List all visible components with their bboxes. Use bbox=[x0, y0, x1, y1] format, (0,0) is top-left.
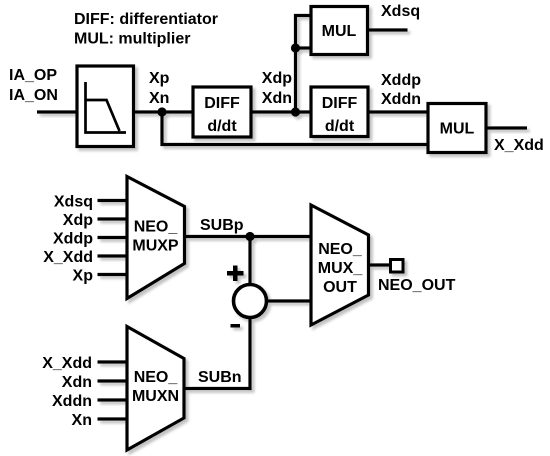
svg-text:MUL: multiplier: MUL: multiplier bbox=[74, 31, 190, 48]
filter response symbol bbox=[86, 82, 127, 133]
differentiator DIFF2 bbox=[311, 87, 368, 137]
svg-text:Xdn: Xdn bbox=[62, 374, 92, 391]
svg-text:NEO_OUT: NEO_OUT bbox=[378, 277, 456, 294]
svg-text:OUT: OUT bbox=[323, 279, 357, 296]
wire DIFF1 to DIFF2 bbox=[251, 110, 311, 113]
mux NEO_MUXP bbox=[127, 177, 185, 299]
wire Xddn stub bbox=[98, 398, 128, 401]
multiplier MUL2 bbox=[428, 104, 486, 153]
svg-text:X_Xdd: X_Xdd bbox=[43, 249, 93, 266]
wire Xddp stub bbox=[98, 236, 128, 239]
svg-text:SUBp: SUBp bbox=[200, 217, 244, 234]
svg-text:Xp: Xp bbox=[73, 268, 94, 285]
svg-text:Xddp: Xddp bbox=[381, 72, 421, 89]
svg-text:MUL: MUL bbox=[440, 121, 475, 138]
wire subtractor output bbox=[267, 299, 312, 302]
node SUBp junction bbox=[245, 232, 254, 241]
svg-text:NEO_: NEO_ bbox=[318, 241, 363, 258]
svg-text:NEO_: NEO_ bbox=[134, 219, 179, 236]
svg-text:X_Xdd: X_Xdd bbox=[494, 137, 544, 154]
svg-text:Xdp: Xdp bbox=[262, 70, 292, 87]
wire Xdsq output bbox=[368, 28, 408, 31]
wire X_Xdd stub bbox=[98, 254, 128, 257]
wire Xd up to MUL1 upper input bbox=[296, 16, 312, 113]
svg-text:Xdp: Xdp bbox=[63, 212, 93, 229]
wire IA input bbox=[37, 110, 77, 113]
wire Xn stub bbox=[98, 417, 128, 420]
svg-text:IA_ON: IA_ON bbox=[9, 87, 58, 104]
svg-text:Xn: Xn bbox=[72, 412, 92, 429]
svg-text:MUXP: MUXP bbox=[132, 238, 179, 255]
multiplier MUL1 bbox=[311, 7, 368, 55]
svg-text:MUX_: MUX_ bbox=[318, 260, 364, 277]
wire Xdp stub bbox=[98, 217, 128, 220]
node Xp/Xn junction bbox=[157, 107, 166, 116]
svg-text:X_Xdd: X_Xdd bbox=[42, 355, 92, 372]
svg-text:NEO_: NEO_ bbox=[134, 369, 179, 386]
svg-text:Xdn: Xdn bbox=[262, 90, 292, 107]
subtractor circle bbox=[234, 285, 267, 318]
svg-text:d/dt: d/dt bbox=[325, 118, 355, 135]
node Xdp/Xdn junction bbox=[291, 107, 300, 116]
wire Xdsq stub bbox=[98, 199, 128, 202]
wire X_Xdd stub N bbox=[98, 360, 128, 363]
svg-text:Xdsq: Xdsq bbox=[381, 3, 420, 20]
pad NEO_OUT square bbox=[391, 260, 404, 273]
minus sign bbox=[231, 324, 241, 328]
wire X bypass to MUL2 bbox=[162, 112, 428, 145]
wire DIFF2 to MUL2 bbox=[368, 110, 428, 113]
svg-text:Xddn: Xddn bbox=[52, 393, 92, 410]
svg-text:SUBn: SUBn bbox=[198, 369, 242, 386]
mux NEO_MUXN bbox=[127, 327, 184, 451]
mux NEO_MUX_OUT bbox=[311, 205, 369, 325]
svg-text:Xdsq: Xdsq bbox=[54, 194, 93, 211]
node MUL1 lower branch bbox=[291, 43, 300, 52]
svg-text:Xddp: Xddp bbox=[53, 231, 93, 248]
wire SUBn up to subtractor bbox=[185, 318, 251, 389]
wire NEO_OUT bbox=[369, 263, 391, 266]
low-pass filter block bbox=[77, 66, 134, 147]
svg-text:IA_OP: IA_OP bbox=[9, 67, 57, 84]
svg-text:MUXN: MUXN bbox=[132, 388, 179, 405]
svg-text:DIFF: DIFF bbox=[204, 95, 240, 112]
differentiator DIFF1 bbox=[193, 87, 251, 137]
wire Xd to MUL1 lower input bbox=[296, 46, 312, 49]
svg-text:DIFF: DIFF bbox=[322, 95, 358, 112]
svg-text:MUL: MUL bbox=[322, 23, 357, 40]
svg-text:DIFF: differentiator: DIFF: differentiator bbox=[74, 11, 218, 28]
svg-text:Xp: Xp bbox=[149, 70, 170, 87]
wire X_Xdd output bbox=[486, 126, 527, 129]
svg-text:d/dt: d/dt bbox=[207, 118, 237, 135]
plus sign bbox=[227, 266, 244, 282]
wire SUBp to NEO_MUX_OUT bbox=[185, 235, 312, 238]
wire SUBp down to subtractor bbox=[248, 237, 251, 285]
wire Xdn stub bbox=[98, 379, 128, 382]
wire Xp stub bbox=[98, 273, 128, 276]
wire filter to DIFF1 bbox=[134, 110, 194, 113]
svg-text:Xn: Xn bbox=[149, 90, 169, 107]
svg-text:Xddn: Xddn bbox=[381, 91, 421, 108]
